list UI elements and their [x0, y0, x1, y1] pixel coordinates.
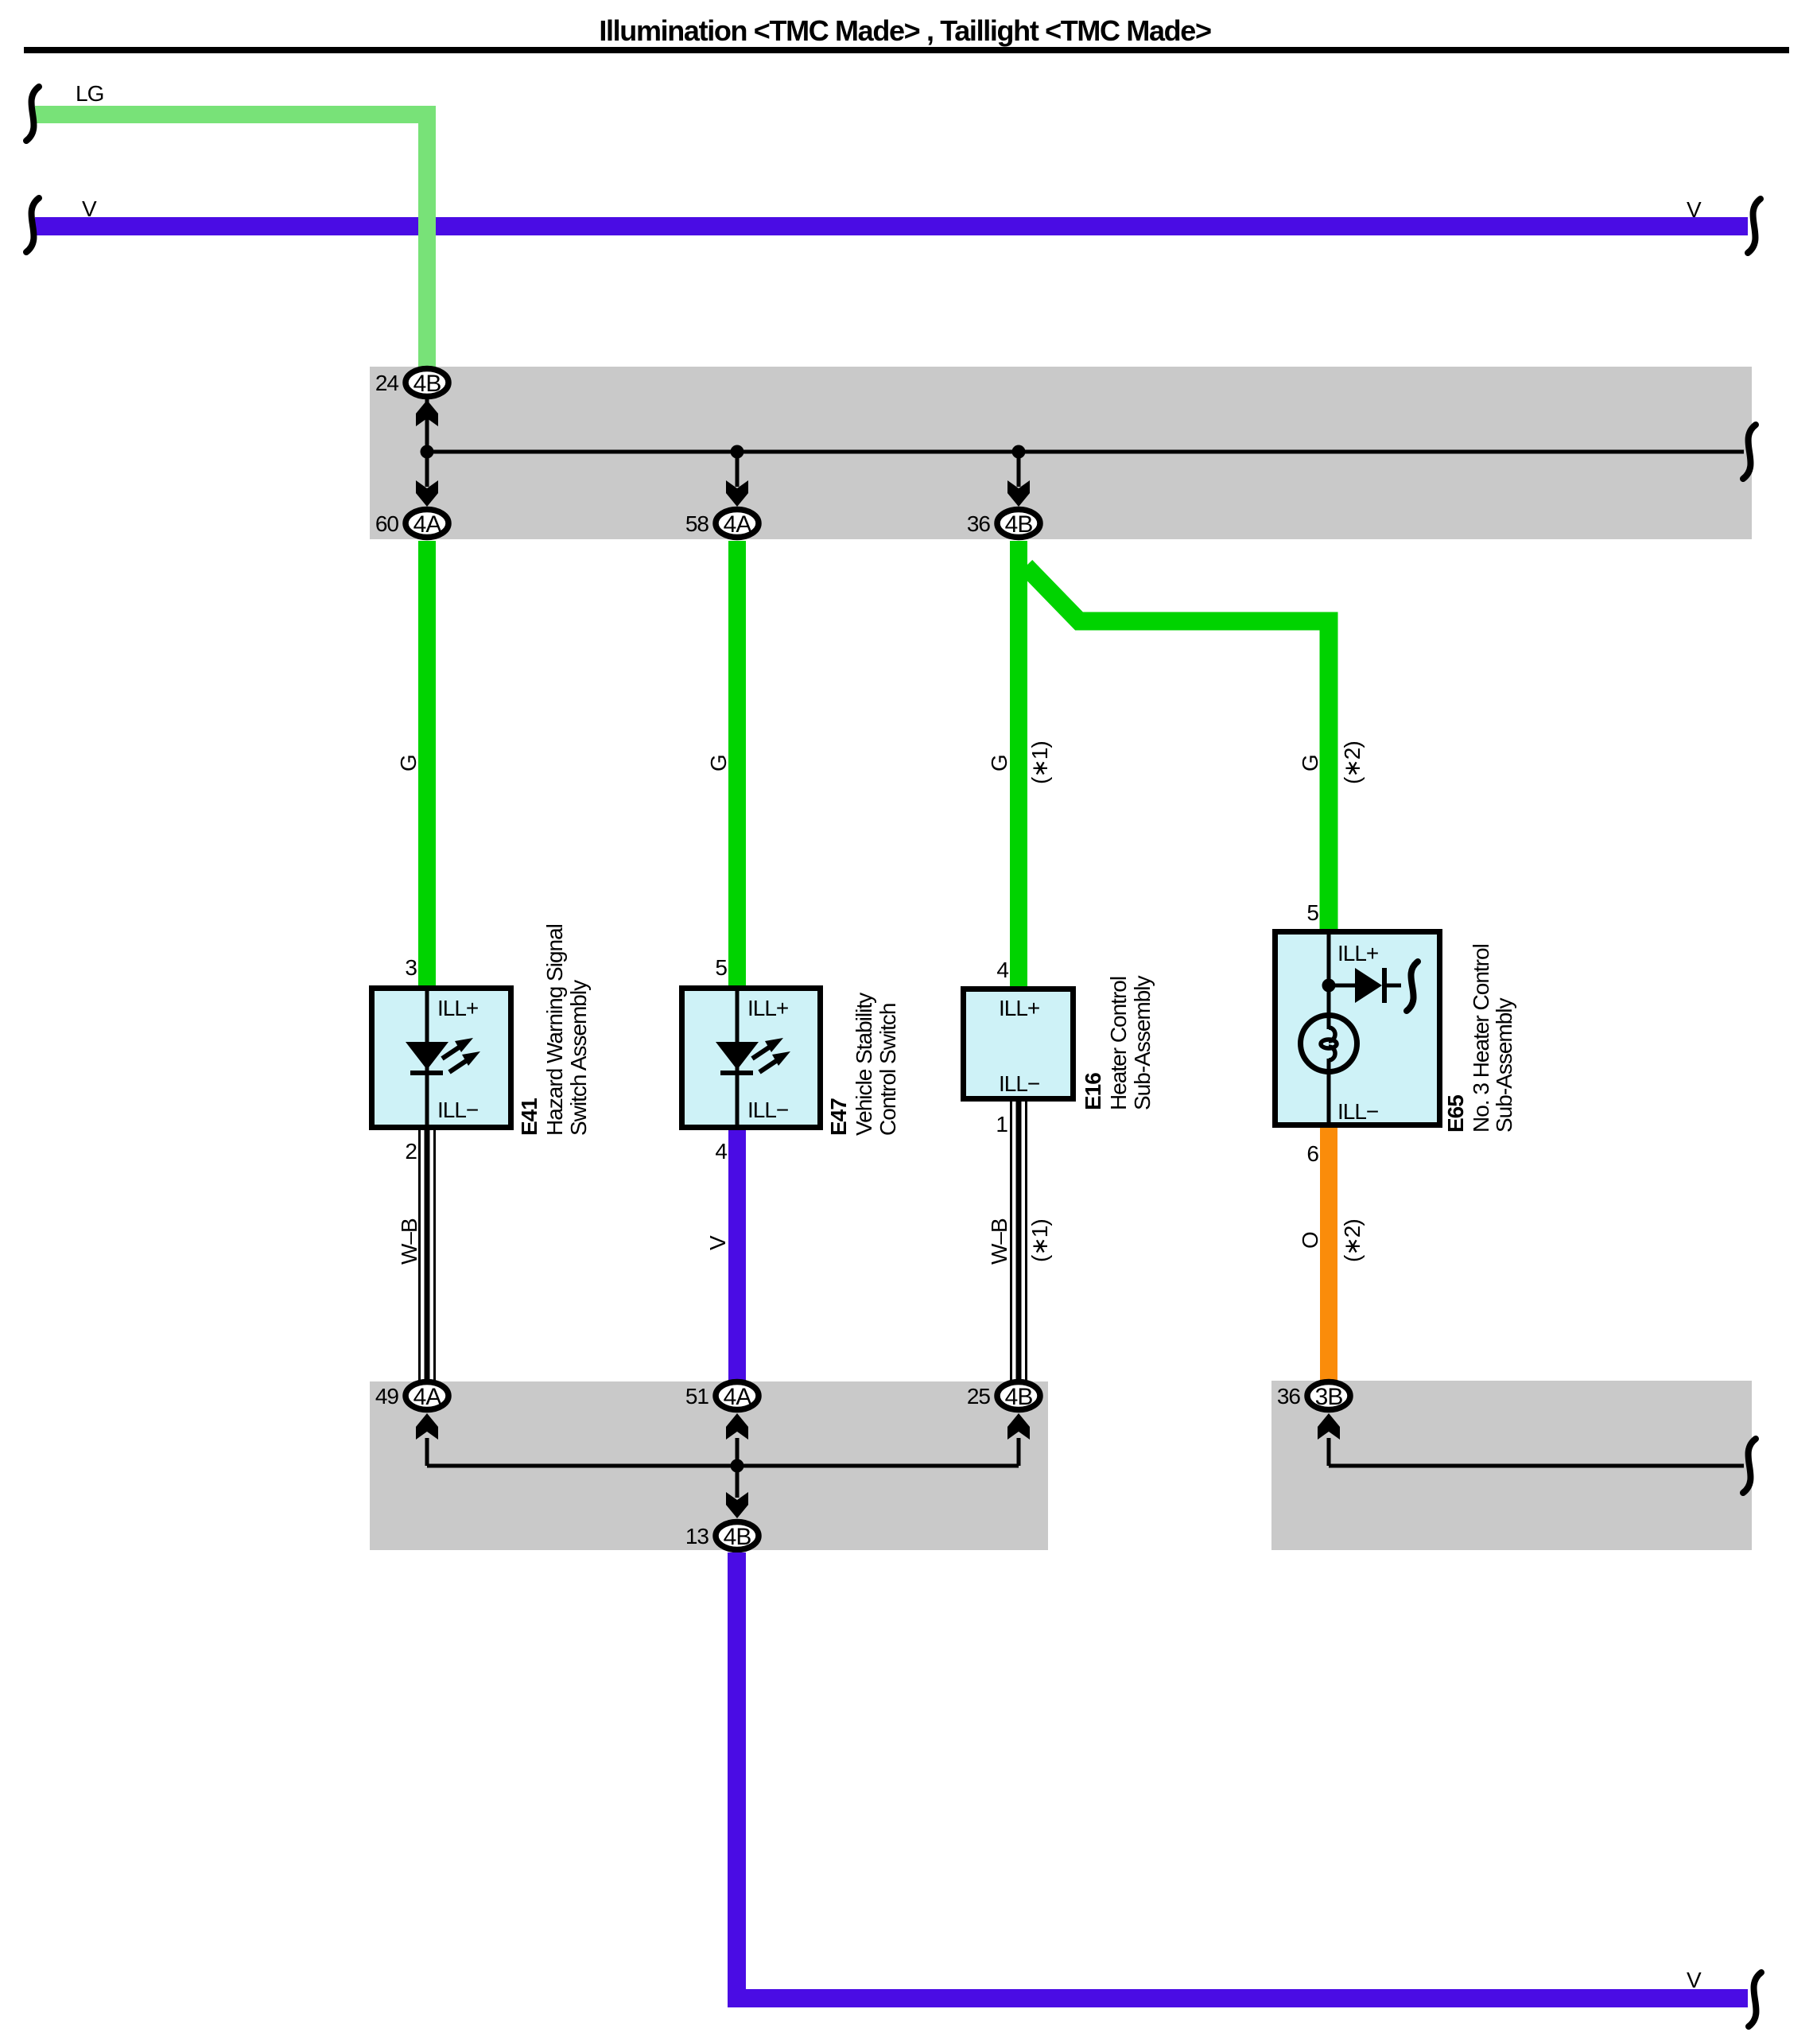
svg-text:51: 51 [685, 1384, 709, 1409]
junction block internal bus line (horizontal) [427, 450, 1744, 454]
svg-text:4B: 4B [1005, 1384, 1033, 1410]
junction node bottom bus [731, 1459, 744, 1473]
svg-text:E47: E47 [826, 1098, 851, 1136]
svg-text:W–B: W–B [397, 1218, 421, 1265]
wire W-B column 3 (E16 pin 1 to 25 4B) [1010, 1102, 1027, 1381]
connector 60 4A [406, 510, 448, 538]
svg-text:58: 58 [685, 511, 709, 536]
connector 49 4A [406, 1382, 448, 1411]
svg-text:13: 13 [685, 1524, 709, 1549]
svg-text:ILL+: ILL+ [1337, 941, 1378, 966]
svg-text:6: 6 [1306, 1141, 1318, 1166]
connector 51 4A [716, 1382, 759, 1411]
svg-text:E16: E16 [1081, 1073, 1105, 1110]
shield band: top junction block J/B [370, 367, 1752, 539]
right band internal wire: stub up to 36 3B [1327, 1438, 1331, 1466]
E65 internal wire to diode [1329, 984, 1355, 988]
svg-text:60: 60 [375, 511, 399, 536]
connector 58 4A [716, 510, 759, 538]
svg-text:ILL−: ILL− [437, 1098, 478, 1122]
component E41 Hazard Warning Signal Switch Assembly [372, 985, 511, 1130]
svg-text:ILL+: ILL+ [747, 996, 788, 1020]
wire LG: vertical drop to connector 24 4B [418, 106, 436, 368]
svg-text:E41: E41 [517, 1098, 542, 1136]
bottom band internal bus line [427, 1464, 1019, 1468]
junction node on bus at x927 [731, 445, 744, 459]
svg-text:ILL−: ILL− [999, 1071, 1039, 1096]
svg-text:4: 4 [715, 1139, 727, 1164]
component E16 Heater Control Sub-Assembly [964, 989, 1073, 1099]
svg-text:Switch Assembly: Switch Assembly [566, 980, 591, 1136]
svg-text:G: G [1298, 755, 1322, 771]
svg-text:No. 3 Heater Control: No. 3 Heater Control [1469, 944, 1493, 1133]
break symbol at V wire right end [1748, 199, 1761, 253]
wire stub to down arrow x1281 [1017, 452, 1021, 487]
wire stub to down arrow x537 [425, 452, 429, 487]
svg-text:Vehicle Stability: Vehicle Stability [852, 993, 876, 1136]
arrow up into connector 36 3B [1318, 1413, 1340, 1440]
arrow down into connector 13 4B [726, 1492, 748, 1518]
stub up to 49 4A [425, 1438, 429, 1466]
svg-text:4: 4 [996, 958, 1008, 982]
wire G column 3 (to E16 pin 4) [1010, 541, 1027, 986]
svg-text:4A: 4A [413, 1384, 442, 1410]
svg-text:36: 36 [1277, 1384, 1301, 1409]
svg-text:24: 24 [375, 371, 399, 395]
right band internal bus line [1329, 1464, 1744, 1468]
svg-text:4A: 4A [413, 511, 442, 538]
svg-text:1: 1 [996, 1112, 1007, 1137]
svg-text:ILL+: ILL+ [437, 996, 478, 1020]
svg-text:4A: 4A [724, 511, 752, 538]
E41 LED symbol [406, 1038, 480, 1075]
wire O column 4 (E65 pin 6 to 36 3B) [1320, 1128, 1337, 1381]
wire V: main horizontal violet wire [35, 217, 1748, 235]
break symbol at bottom V wire end [1749, 1972, 1761, 2027]
svg-text:Control Switch: Control Switch [875, 1003, 900, 1136]
connector 25 4B [997, 1382, 1040, 1411]
wire V column 2 (E47 pin 4 to 51 4A) [728, 1130, 746, 1381]
wire W-B column 1 (E41 pin 2 to 49 4A) [418, 1130, 436, 1381]
arrow down into connector 58 4A [726, 480, 748, 507]
svg-text:(∗2): (∗2) [1340, 1219, 1365, 1262]
break symbol at LG wire left end [26, 87, 39, 141]
svg-text:Heater Control: Heater Control [1106, 977, 1131, 1110]
svg-text:(∗2): (∗2) [1340, 741, 1365, 784]
wire G column 1 (to E41 pin 3) [418, 541, 436, 985]
svg-text:V: V [1687, 1968, 1702, 1992]
svg-text:2: 2 [405, 1139, 417, 1164]
svg-text:4B: 4B [1005, 511, 1033, 538]
svg-text:25: 25 [967, 1384, 991, 1409]
wire LG: horizontal light-green wire from page break [35, 106, 436, 123]
svg-text:ILL−: ILL− [1337, 1099, 1378, 1124]
svg-text:Illumination <TMC Made> , Tail: Illumination <TMC Made> , Taillight <TMC… [599, 14, 1211, 47]
svg-text:ILL−: ILL− [747, 1098, 788, 1122]
svg-text:E65: E65 [1443, 1095, 1468, 1133]
svg-text:Hazard Warning Signal: Hazard Warning Signal [542, 924, 567, 1136]
wire G column 2 (to E47 pin 5) [728, 541, 746, 985]
wire V from 13 4B to page break (bottom) [737, 1552, 1749, 1999]
svg-text:W–B: W–B [987, 1218, 1011, 1265]
junction node on bus at x537 [421, 445, 434, 459]
junction block internal thin wire: vertical from 4B to bus [425, 398, 429, 453]
arrow up into connector 51 4A [726, 1413, 748, 1440]
break symbol at V wire left end [26, 198, 39, 252]
stub down to 13 4B [736, 1466, 740, 1498]
svg-text:3: 3 [405, 955, 417, 980]
svg-text:Sub-Assembly: Sub-Assembly [1130, 975, 1155, 1110]
E65 internal break symbol after diode [1407, 962, 1418, 1011]
E65 diode symbol [1355, 968, 1401, 1003]
E65 bulb symbol [1301, 1016, 1357, 1072]
svg-text:O: O [1298, 1232, 1322, 1249]
shield band: bottom-middle junction block [370, 1381, 1048, 1550]
svg-text:V: V [82, 196, 97, 221]
junction node on bus at x1281 [1012, 445, 1026, 459]
arrow down into connector 36 4B [1007, 480, 1030, 507]
E47 LED symbol [716, 1038, 790, 1075]
arrow down into connector 60 4A [416, 480, 438, 507]
svg-text:V: V [1687, 197, 1702, 222]
svg-text:Sub-Assembly: Sub-Assembly [1492, 997, 1516, 1133]
wire stub to down arrow x927 [736, 452, 740, 487]
component E47 Vehicle Stability Control Switch [682, 985, 821, 1130]
E65 internal node (junction dot) [1322, 979, 1336, 993]
svg-text:4B: 4B [413, 371, 441, 397]
svg-text:(∗1): (∗1) [1027, 741, 1052, 784]
stub up to 51 4A [736, 1438, 740, 1466]
title rule [24, 47, 1789, 53]
component E65 No. 3 Heater Control Sub-Assembly [1275, 929, 1440, 1128]
svg-text:3B: 3B [1315, 1384, 1343, 1410]
connector 13 4B [716, 1522, 759, 1551]
svg-text:V: V [705, 1235, 730, 1250]
wire G branch to E65 pin 5 [1026, 566, 1329, 929]
svg-text:(∗1): (∗1) [1027, 1219, 1052, 1262]
svg-text:4B: 4B [724, 1524, 751, 1550]
break symbol at right band bus end [1743, 1439, 1756, 1493]
svg-text:5: 5 [715, 955, 727, 980]
svg-text:G: G [987, 755, 1011, 771]
svg-text:G: G [706, 755, 731, 771]
arrow up into connector 49 4A [416, 1413, 438, 1440]
connector 24 4B [406, 369, 448, 398]
connector 36 3B [1307, 1382, 1350, 1411]
shield band: bottom-right junction block [1271, 1381, 1752, 1550]
arrow up into connector 25 4B [1007, 1413, 1030, 1440]
svg-text:5: 5 [1306, 900, 1318, 925]
svg-text:36: 36 [967, 511, 991, 536]
stub up to 25 4B [1017, 1438, 1021, 1466]
svg-text:ILL+: ILL+ [999, 996, 1039, 1020]
svg-text:4A: 4A [724, 1384, 752, 1410]
svg-text:LG: LG [76, 81, 103, 106]
svg-text:G: G [396, 755, 421, 771]
arrow up into connector 24 4B [416, 400, 438, 426]
connector 36 4B [997, 510, 1040, 538]
break symbol at bus line right end [1743, 425, 1756, 479]
svg-text:49: 49 [375, 1384, 399, 1409]
